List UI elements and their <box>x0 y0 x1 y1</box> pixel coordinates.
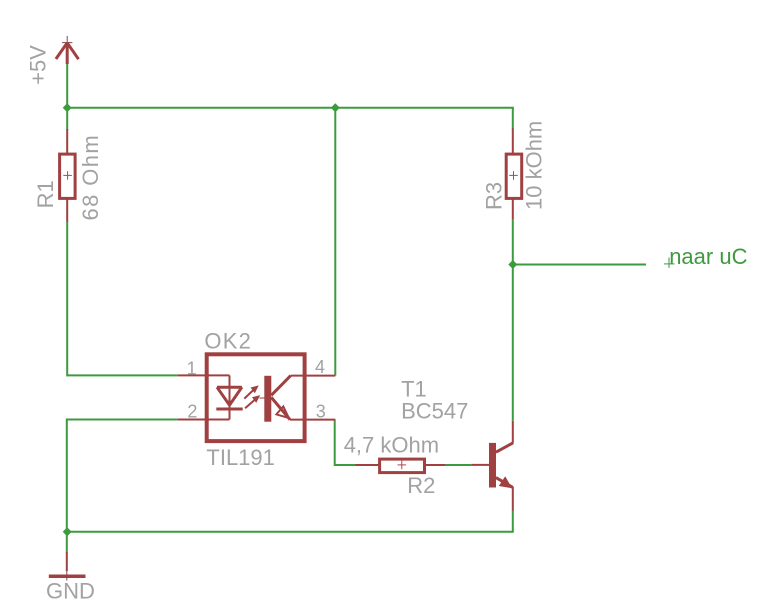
svg-text:+5V: +5V <box>26 45 51 85</box>
svg-text:R2: R2 <box>407 473 435 498</box>
svg-text:OK2: OK2 <box>204 329 252 354</box>
svg-text:naar uC: naar uC <box>669 244 747 269</box>
svg-text:GND: GND <box>46 579 95 604</box>
svg-text:1: 1 <box>187 359 197 379</box>
svg-text:TIL191: TIL191 <box>206 445 275 470</box>
svg-text:BC547: BC547 <box>401 399 468 424</box>
svg-text:R1: R1 <box>33 180 58 208</box>
svg-text:2: 2 <box>187 402 197 422</box>
svg-text:4,7 kOhm: 4,7 kOhm <box>344 433 439 458</box>
svg-text:10 kOhm: 10 kOhm <box>522 121 547 210</box>
svg-text:3: 3 <box>316 402 326 422</box>
svg-text:4: 4 <box>315 357 325 377</box>
svg-text:R3: R3 <box>482 182 507 210</box>
svg-text:68 Ohm: 68 Ohm <box>78 134 103 221</box>
